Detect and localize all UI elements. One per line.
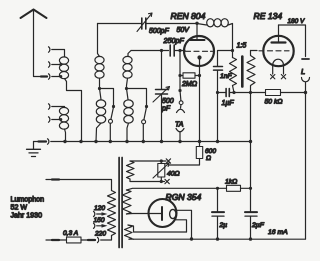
inductor RFC anode choke: [197, 19, 233, 58]
svg-text:500pF: 500pF: [149, 28, 170, 35]
node choke tap: [231, 49, 234, 52]
svg-text:120: 120: [94, 205, 105, 212]
coil L3b lower section: [124, 89, 133, 142]
svg-text:2µ: 2µ: [219, 222, 228, 229]
tap hook A2: [49, 62, 63, 67]
winding W1 filament secondary: [127, 159, 171, 184]
capacitor C6 2uF left: [212, 188, 227, 239]
node primary bottom: [232, 91, 235, 94]
svg-text:2MΩ: 2MΩ: [181, 81, 198, 88]
wire anode top line: [98, 23, 142, 25]
svg-text:40Ω: 40Ω: [167, 171, 180, 178]
wire bias line: [218, 92, 226, 94]
tube U1 REN 804 triode: [171, 11, 215, 142]
node secondary bottom: [249, 91, 252, 94]
node bus junctions: [63, 140, 252, 143]
svg-text:Lumophon: Lumophon: [11, 196, 45, 204]
resistor R1 2Mohm grid leak: [180, 73, 200, 88]
tap 120: [94, 205, 108, 217]
node L junction: [304, 91, 307, 94]
resistor R5 1k: [218, 179, 251, 192]
svg-text:500: 500: [162, 98, 174, 105]
wire RE anode to L jack: [279, 25, 306, 57]
coil L3a grid coil upper section: [123, 51, 132, 89]
svg-text:1µF: 1µF: [222, 100, 235, 107]
capacitor C1 500pF feedback variable: [137, 13, 197, 35]
antenna: [21, 10, 48, 77]
svg-text:150: 150: [94, 217, 105, 224]
jack TA terminals: [175, 105, 185, 142]
node cathode 2M: [198, 74, 201, 77]
wire grid line: [131, 50, 169, 52]
svg-text:600: 600: [205, 148, 216, 155]
transformer T1 interstage 1:5: [230, 43, 256, 93]
svg-text:Jahr 1930: Jahr 1930: [11, 212, 43, 220]
resistor R4 40 ohm hum rheostat: [153, 161, 180, 182]
node bottom bus junctions: [216, 237, 219, 240]
tap hook A3 with antenna plug: [49, 74, 63, 79]
switch S1 wave switch left: [100, 89, 116, 142]
node grid junction tuning: [160, 49, 163, 52]
wire ground bus: [34, 141, 39, 143]
capacitor C4 1nF: [214, 51, 233, 93]
tube U3 RGN 354 rectifier: [149, 192, 202, 239]
node coil L2 junction: [98, 87, 101, 90]
svg-text:RE 134: RE 134: [254, 11, 283, 21]
svg-text:RGN 354: RGN 354: [166, 192, 202, 202]
svg-text:0,3 A: 0,3 A: [63, 230, 79, 237]
svg-text:Ω: Ω: [206, 155, 211, 162]
svg-text:1:5: 1:5: [237, 43, 247, 50]
svg-text:L: L: [301, 67, 305, 76]
wire 1nF bus drop: [217, 93, 219, 142]
svg-text:16 mA: 16 mA: [268, 229, 288, 236]
winding W4 mains primary: [59, 180, 116, 236]
switch S3 pickup switch: [178, 89, 183, 105]
capacitor C3 250pF coupling: [163, 36, 186, 56]
socket earth connector: [48, 139, 49, 144]
resistor R2 50k: [265, 90, 306, 106]
wire grid branch to TA: [179, 51, 181, 91]
wire secondary bus drop: [250, 93, 252, 189]
plug earth connector: [39, 140, 47, 142]
ground earth symbol: [27, 142, 41, 157]
svg-text:2µF: 2µF: [251, 222, 265, 229]
jack L loudspeaker terminals: [301, 59, 310, 93]
svg-text:1kΩ: 1kΩ: [225, 179, 237, 186]
node rectifier output: [190, 237, 193, 240]
label set titles: [11, 196, 45, 220]
svg-text:250pF: 250pF: [163, 36, 185, 45]
svg-text:REN 804: REN 804: [171, 11, 206, 21]
coil L1b antenna coil lower section: [49, 104, 69, 142]
capacitor C7 2uF right: [245, 188, 265, 239]
wire bottom bus: [134, 238, 306, 240]
resistor R3 600 ohm: [169, 142, 216, 166]
node 2M grid end: [178, 74, 181, 77]
node 1uF left: [216, 91, 219, 94]
svg-text:TA: TA: [175, 122, 184, 129]
svg-text:52 W: 52 W: [11, 204, 28, 212]
capacitor C2 500pF tuning variable: [153, 51, 174, 142]
svg-text:220: 220: [94, 230, 106, 237]
svg-text:pF: pF: [161, 106, 171, 113]
tap 150: [94, 217, 108, 229]
wire right edge down: [305, 93, 307, 240]
coil L2b lower section: [96, 89, 106, 142]
node 1k left: [216, 187, 219, 190]
node coil L3 junction: [125, 87, 128, 90]
fuse F1 0.3A: [46, 230, 95, 243]
winding W3 rectifier filament: [125, 225, 187, 239]
svg-text:50 kΩ: 50 kΩ: [265, 99, 283, 106]
tap hook A4: [49, 117, 63, 122]
winding W2 HT secondary: [123, 188, 218, 214]
node grid leak junction: [178, 49, 181, 52]
tube U2 RE 134 output triode: [251, 11, 305, 79]
coil L1a antenna coil upper section: [49, 47, 82, 142]
plug mains lead top: [46, 179, 59, 181]
transformer T2 mains core: [119, 158, 122, 248]
node anode junction: [195, 22, 198, 25]
svg-text:180 V: 180 V: [288, 18, 305, 25]
coil L2a feedback coil upper section: [95, 24, 104, 89]
node 1k right: [249, 187, 252, 190]
switch S2 wave switch right: [127, 89, 149, 142]
svg-text:50V: 50V: [177, 27, 191, 34]
capacitor C5 1uF: [222, 89, 266, 108]
tap 220 socket: [94, 230, 112, 242]
